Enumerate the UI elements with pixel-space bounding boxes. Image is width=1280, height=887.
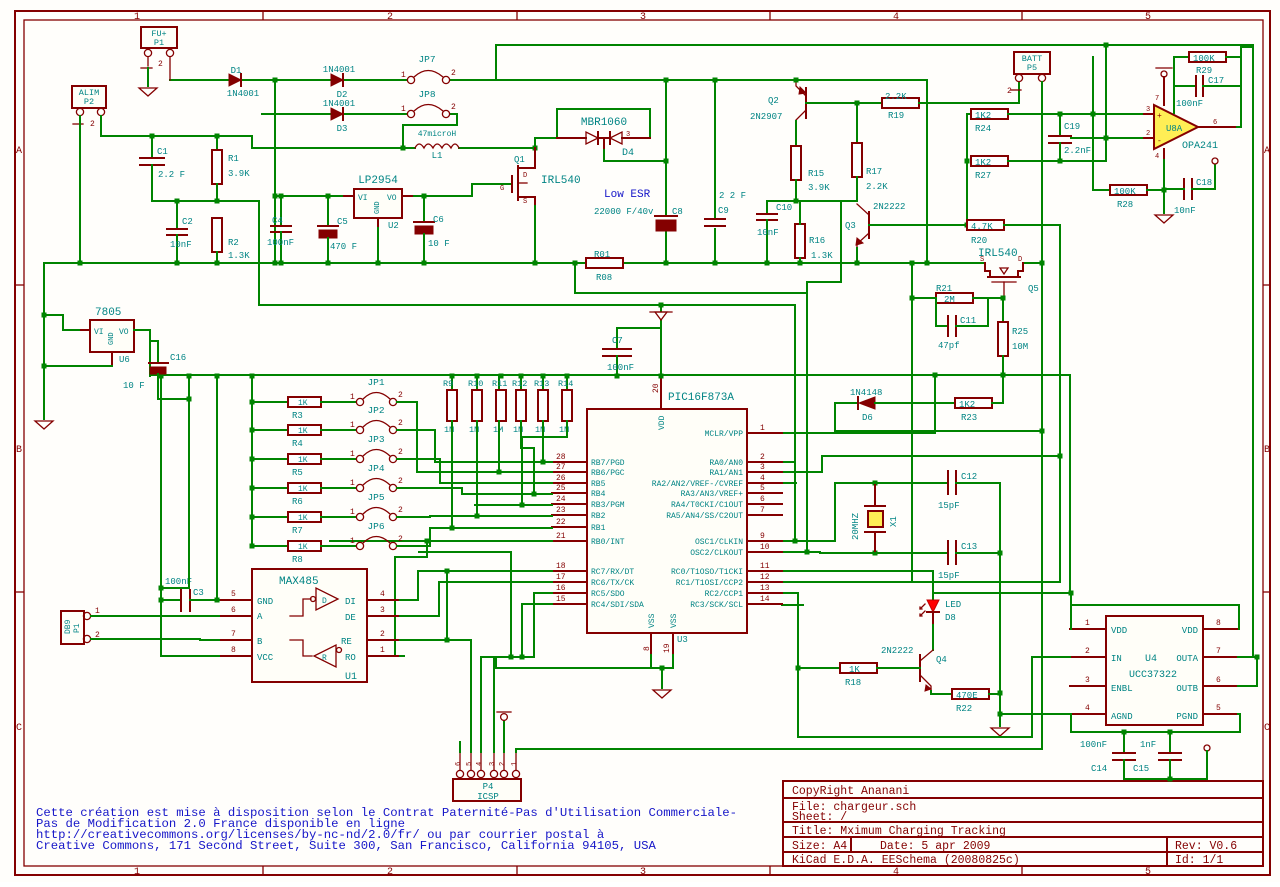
resistor R20 4.7K [967,220,1004,246]
resistor R08 R01 in rail [586,250,623,283]
crystal X1 20MHZ [851,481,899,556]
svg-text:4: 4 [1155,153,1159,161]
svg-text:R5: R5 [292,468,303,478]
resistor R1 3.9K [212,136,250,201]
svg-text:JP8: JP8 [418,89,435,100]
svg-text:25: 25 [556,484,566,493]
svg-text:C6: C6 [433,215,444,225]
svg-text:R18: R18 [845,678,861,688]
svg-text:Low ESR: Low ESR [604,189,651,201]
wire UCC IN drive net [798,657,1032,737]
svg-text:Date: 5 apr 2009: Date: 5 apr 2009 [880,840,991,853]
svg-text:R27: R27 [975,171,991,181]
resistor R13 1M [534,374,549,436]
svg-text:CopyRight Ananani: CopyRight Ananani [792,785,909,798]
svg-text:MBR1060: MBR1060 [581,117,627,129]
wire: C9 column x=715 [714,80,716,219]
wire: VCC feed vertical x=161 [161,376,219,656]
svg-text:3: 3 [489,762,497,766]
svg-text:5: 5 [1145,867,1151,878]
wire: P4 no-connect stub with circle [503,721,505,752]
svg-text:ICSP: ICSP [477,792,499,802]
svg-text:4: 4 [893,12,899,23]
svg-text:RB0/INT: RB0/INT [591,538,625,547]
svg-text:2: 2 [398,448,403,457]
svg-text:U2: U2 [388,221,399,231]
svg-text:2: 2 [1085,647,1090,656]
resistor R28 100K [1093,185,1164,210]
svg-text:1K: 1K [298,514,308,523]
svg-text:VI: VI [358,194,368,203]
svg-text:100nF: 100nF [165,577,192,587]
svg-text:12: 12 [760,573,770,582]
title block [783,781,1263,867]
wire LED anode to VDD net [933,592,1071,594]
svg-text:R2: R2 [228,238,239,248]
svg-text:100K: 100K [1193,54,1215,64]
resistor R15 3.9K [791,146,830,201]
svg-text:3: 3 [626,131,630,139]
svg-text:R10: R10 [468,379,483,389]
wire RC4 row [522,603,552,605]
wire RB7 row [435,461,552,463]
wire: P4 feeds [470,640,472,752]
svg-text:1: 1 [401,71,406,80]
wire RB0/INT row [330,540,552,542]
svg-text:GND: GND [108,332,116,345]
svg-text:R19: R19 [888,111,904,121]
wire x=912 long vertical [911,263,913,582]
capacitor C18 10nF [1174,158,1218,216]
wire: D4 anode loop [535,137,557,139]
diode D3 1N4001 [262,99,355,134]
svg-text:1K: 1K [298,543,308,552]
terminal circle right [1204,745,1210,751]
svg-text:R7: R7 [292,526,303,536]
svg-text:10M: 10M [1012,342,1028,352]
svg-text:15pF: 15pF [938,501,960,511]
wire: VDD rail y=376 [150,374,1070,376]
svg-text:R23: R23 [961,413,977,423]
svg-text:RC3/SCK/SCL: RC3/SCK/SCL [690,601,743,610]
svg-text:RA0/AN0: RA0/AN0 [709,459,743,468]
svg-text:11: 11 [760,562,770,571]
wire: PGND bottom loop [1071,714,1240,732]
svg-text:1K: 1K [298,456,308,465]
wire: AGND row [1000,713,1070,715]
svg-text:1: 1 [350,537,355,546]
wire RB4 row [462,493,552,495]
svg-text:7: 7 [1216,647,1221,656]
svg-text:4: 4 [893,867,899,878]
dual diode D4 MBR1060 [557,117,650,159]
svg-text:10: 10 [760,543,770,552]
svg-text:R20: R20 [971,236,987,246]
jumper JP1 [350,377,406,406]
svg-text:7: 7 [760,506,765,515]
svg-text:C1: C1 [157,147,168,157]
svg-text:P1: P1 [154,38,164,48]
resistor R22 470E [931,689,1000,714]
svg-text:R6: R6 [292,497,303,507]
svg-text:R9: R9 [443,379,453,389]
svg-text:10 F: 10 F [428,239,450,249]
svg-text:U6: U6 [119,355,130,365]
wire: JP8 to L1 jog [403,114,457,148]
svg-text:C2: C2 [182,217,193,227]
svg-text:100nF: 100nF [1080,740,1107,750]
svg-text:1: 1 [134,12,140,23]
svg-text:RC1/T1OSI/CCP2: RC1/T1OSI/CCP2 [676,579,743,588]
svg-text:GND: GND [374,201,382,214]
wire weave: pullups and jumpers to PIC port B / C pins [330,402,567,656]
svg-text:5: 5 [1216,704,1221,713]
svg-text:1K: 1K [298,427,308,436]
jumper JP8 [401,89,456,118]
svg-text:1K: 1K [849,665,860,675]
svg-text:JP2: JP2 [367,405,384,416]
wire RB2 row [430,516,552,517]
svg-text:1N4148: 1N4148 [850,388,882,398]
resistor R10 1M [468,374,483,436]
svg-text:R4: R4 [292,439,303,449]
svg-text:8: 8 [1216,619,1221,628]
wire RB5 row [440,482,552,484]
svg-text:4: 4 [380,590,385,599]
wire: RA1 to y=456 [782,456,822,472]
svg-text:13: 13 [760,584,770,593]
capacitor C1 [140,136,185,201]
wire: R15 node to C10, down around [767,200,857,202]
svg-text:2: 2 [398,477,403,486]
resistor R7 1K [250,512,357,536]
svg-text:6: 6 [1213,119,1217,127]
wire: bottom rail y=263 [44,262,586,264]
svg-text:D: D [523,172,527,180]
transceiver U1 MAX485 [219,569,400,683]
svg-text:2 2 F: 2 2 F [719,191,746,201]
svg-text:RA4/T0CKI/C1OUT: RA4/T0CKI/C1OUT [671,501,743,510]
capacitor C14 100nF [1080,732,1135,779]
svg-text:47pf: 47pf [938,341,960,351]
svg-text:JP7: JP7 [418,54,435,65]
svg-text:DB9: DB9 [64,619,73,634]
svg-text:R08: R08 [596,273,612,283]
svg-text:2.2K: 2.2K [866,182,888,192]
svg-text:B: B [1264,445,1270,456]
wire: opamp V- to ground [1163,160,1165,213]
svg-text:2: 2 [451,69,456,78]
svg-text:2: 2 [760,453,765,462]
svg-text:5: 5 [231,590,236,599]
svg-text:2: 2 [398,391,403,400]
wire: x=807 down from R15 loop [806,305,808,552]
svg-text:Q3: Q3 [845,221,856,231]
svg-text:470 F: 470 F [330,242,357,252]
svg-text:RO: RO [345,653,356,663]
svg-text:Title: Mximum Charging Trackin: Title: Mximum Charging Tracking [792,825,1006,838]
resistor R8 1K [250,541,357,565]
svg-text:Q2: Q2 [768,96,779,106]
svg-text:100nF: 100nF [607,363,634,373]
svg-text:OPA241: OPA241 [1182,141,1218,152]
svg-text:2.2 F: 2.2 F [158,170,185,180]
wire: output node vertical x=1241 [1237,47,1241,127]
diode D1 1N4001 [227,66,259,99]
svg-text:LED: LED [945,600,961,610]
svg-text:1: 1 [95,607,100,616]
ground under x=1000 [999,714,1001,726]
svg-text:22: 22 [556,518,566,527]
vertical x=1106 to top y=45 wire [1105,45,1107,161]
capacitor C12 15pF [875,471,1000,511]
wire: P2 pin2 to y=135 node row [101,116,403,148]
wire + ground under P1 [147,68,149,86]
svg-text:1: 1 [1085,619,1090,628]
svg-text:R: R [322,654,327,663]
driver U4 UCC37322 [1070,616,1238,725]
creative commons notice text [36,806,737,853]
wire: VSS left long to MAX485 RO riser [496,657,651,668]
wire: R20 right up x=1067 [1004,225,1060,456]
svg-text:C7: C7 [612,336,623,346]
svg-text:14: 14 [760,595,770,604]
wire: P2 pin1 down to rail [79,116,81,263]
transistor Q4 2N2222 [881,625,947,691]
svg-text:U1: U1 [345,672,357,683]
svg-text:100K: 100K [1114,187,1136,197]
svg-text:Size: A4: Size: A4 [792,840,847,853]
svg-text:VSS: VSS [648,613,657,628]
mosfet Q1 IRL540 [480,148,581,206]
resistor R24 1K2 [967,109,1152,134]
wire: P1 pins to A,B [91,615,219,617]
svg-text:2: 2 [387,867,393,878]
svg-text:1N4001: 1N4001 [227,89,259,99]
svg-text:P2: P2 [84,97,94,107]
svg-text:5: 5 [1145,12,1151,23]
diode D2 1N4001 [323,65,355,100]
svg-text:GND: GND [257,597,273,607]
svg-text:1K: 1K [298,399,308,408]
svg-text:VDD: VDD [658,415,667,430]
svg-text:MAX485: MAX485 [279,576,319,588]
ground at x=44 [35,421,53,429]
svg-text:C18: C18 [1196,178,1212,188]
svg-text:1N4001: 1N4001 [323,65,355,75]
wire: C14/C15 bottom bus [1124,778,1207,780]
wire: RA0 stub wire [782,461,794,463]
svg-text:2M: 2M [944,295,955,305]
svg-text:5: 5 [466,762,474,766]
svg-text:3: 3 [640,867,646,878]
svg-text:1K2: 1K2 [959,400,975,410]
svg-text:C15: C15 [1133,764,1149,774]
wire: y=374 over to x=1070 down to UCC IN? no - to VDD1 [1069,375,1071,593]
resistor R12 1M [512,374,527,436]
svg-text:2: 2 [387,12,393,23]
svg-text:KiCad E.D.A. EESchema (200808: KiCad E.D.A. EESchema (20080825c) [792,854,1020,867]
wire: C12/C13 right vertical x=1000 down [999,483,1001,714]
resistor R3 1K [250,397,357,421]
wire: x=795 OSC1 feed from y=305 [794,305,796,541]
svg-text:C9: C9 [718,206,729,216]
wire: L1 out to Q1 drain node [459,147,535,149]
svg-text:C: C [1264,723,1270,734]
capacitor C15 1nF [1133,732,1181,779]
svg-text:OSC2/CLKOUT: OSC2/CLKOUT [690,549,743,558]
wire: Q2 collector down to R15 [795,121,797,146]
svg-text:Q4: Q4 [936,655,947,665]
wire: IN row from left [1032,656,1070,658]
capacitor C11 47pf parallel [936,298,988,351]
svg-text:R22: R22 [956,704,972,714]
svg-text:2N2222: 2N2222 [881,646,913,656]
svg-text:RC2/CCP1: RC2/CCP1 [705,590,744,599]
regulator U6 7805 [79,307,145,366]
svg-text:R14: R14 [558,379,573,389]
svg-text:4: 4 [476,762,484,766]
wire: x=189 vertical from rail [161,376,189,588]
svg-text:X1: X1 [889,516,899,527]
svg-text:RB1: RB1 [591,524,606,533]
jumper JP3 [350,434,406,463]
svg-text:G: G [500,185,504,193]
svg-text:Creative Commons, 171 Second S: Creative Commons, 171 Second Street, Sui… [36,839,656,853]
jumper JP2 [350,405,406,434]
svg-text:Q1: Q1 [514,155,525,165]
svg-text:VO: VO [387,194,397,203]
svg-text:DE: DE [345,613,356,623]
svg-text:PGND: PGND [1176,712,1198,722]
svg-text:VDD: VDD [1182,626,1198,636]
svg-text:S: S [980,256,984,264]
wire weave: JP outputs down to RC pins [406,459,552,660]
svg-text:C12: C12 [961,472,977,482]
svg-text:C14: C14 [1091,764,1107,774]
transistor Q2 2N2907 PNP [750,80,806,122]
wire: left vertical x=44 to ground [43,263,45,419]
svg-text:MCLR/VPP: MCLR/VPP [705,430,744,439]
svg-text:Sheet: /: Sheet: / [792,811,847,824]
svg-text:D6: D6 [862,413,873,423]
svg-text:LP2954: LP2954 [358,175,398,187]
svg-text:Id: 1/1: Id: 1/1 [1175,854,1223,867]
svg-text:2: 2 [398,506,403,515]
wire: feedback left vertical x=1093 [1092,57,1094,190]
mosfet Q5 IRL540 horizontal [978,248,1039,298]
svg-text:1: 1 [134,867,140,878]
svg-text:RA2/AN2/VREF-/CVREF: RA2/AN2/VREF-/CVREF [652,480,743,489]
capacitor C13 15pF [875,541,1000,581]
wire: top rail y=80 [170,79,229,81]
svg-text:10nF: 10nF [1174,206,1196,216]
svg-text:RC4/SDI/SDA: RC4/SDI/SDA [591,601,644,610]
wire: JP1 JP2 outputs [406,401,417,403]
svg-text:OSC1/CLKIN: OSC1/CLKIN [695,538,743,547]
svg-text:RA5/AN4/SS/C2OUT: RA5/AN4/SS/C2OUT [666,512,743,521]
svg-text:R13: R13 [534,379,549,389]
svg-text:VCC: VCC [257,653,274,663]
capacitor C9 2.2F [705,191,746,226]
wire: Q2 base to R19 [806,102,882,104]
svg-text:27: 27 [556,463,566,472]
svg-text:C17: C17 [1208,76,1224,86]
resistor R14 1M [558,374,573,436]
svg-text:R12: R12 [512,379,527,389]
wire y=749 ICSP long wire [516,748,1042,750]
svg-text:JP6: JP6 [367,521,384,532]
wire: U2 gnd to rail [377,228,379,263]
svg-text:3: 3 [640,12,646,23]
svg-text:P5: P5 [1027,63,1037,73]
svg-text:R01: R01 [594,250,610,260]
svg-text:R16: R16 [809,236,825,246]
svg-text:PIC16F873A: PIC16F873A [668,392,734,404]
svg-text:A: A [1264,146,1270,157]
resistor R27 1K2 [971,156,1106,181]
svg-text:100nF: 100nF [267,238,294,248]
wire: D4 center tap down to C8 column [604,148,666,161]
svg-text:A: A [16,146,22,157]
led D8 [920,600,961,625]
transistor Q3 2N2222 NPN [845,177,905,248]
vertical x=916 rail to top rail [1040,261,1045,266]
wire: 7805 VO to VDD rail [134,330,150,376]
wire RB1 row [430,528,552,546]
svg-text:2N2222: 2N2222 [873,202,905,212]
svg-text:1nF: 1nF [1140,740,1156,750]
svg-text:C8: C8 [672,207,683,217]
svg-text:R15: R15 [808,169,824,179]
svg-text:2: 2 [1146,130,1150,138]
diode D6 1N4148 [835,388,882,423]
svg-text:7: 7 [231,630,236,639]
svg-text:D1: D1 [231,66,242,76]
wire: D6 left down to y=431 [835,403,1042,431]
wire: R19 right to BATT pin1 [919,82,1019,103]
svg-text:3: 3 [1085,676,1090,685]
svg-text:U4: U4 [1145,654,1157,665]
svg-text:2N2907: 2N2907 [750,112,782,122]
capacitor C17 100nF [1174,76,1241,109]
svg-text:OUTA: OUTA [1176,654,1198,664]
svg-text:26: 26 [556,474,566,483]
wire: 7805 GND to left ground column [44,365,112,367]
svg-text:R25: R25 [1012,327,1028,337]
svg-text:1K: 1K [298,485,308,494]
svg-text:1: 1 [350,421,355,430]
svg-text:U8A: U8A [1166,124,1183,134]
svg-text:RC6/TX/CK: RC6/TX/CK [591,579,634,588]
vertical x=259 to OSC route y=305 [259,201,795,305]
svg-text:47microH: 47microH [418,130,457,139]
capacitor C4 100nF [267,194,294,266]
svg-text:C4: C4 [272,216,283,226]
resistor R5 1K [250,454,357,478]
jumper JP5 [350,492,406,521]
svg-text:JP5: JP5 [367,492,384,503]
wire: y=45 top long wire [496,45,1253,80]
vertical x=967 joining R24/R27 [966,114,968,225]
resistor R2 1.3K [212,218,250,266]
wire RB0 to RO staircase [395,541,427,656]
wire: Q3 base row y=225 to R20 [869,224,967,226]
svg-text:7805: 7805 [95,307,121,319]
wire: x=1060 up to y=456 [822,456,1060,582]
connector P1 FU+ [141,27,177,80]
svg-text:JP3: JP3 [367,434,384,445]
